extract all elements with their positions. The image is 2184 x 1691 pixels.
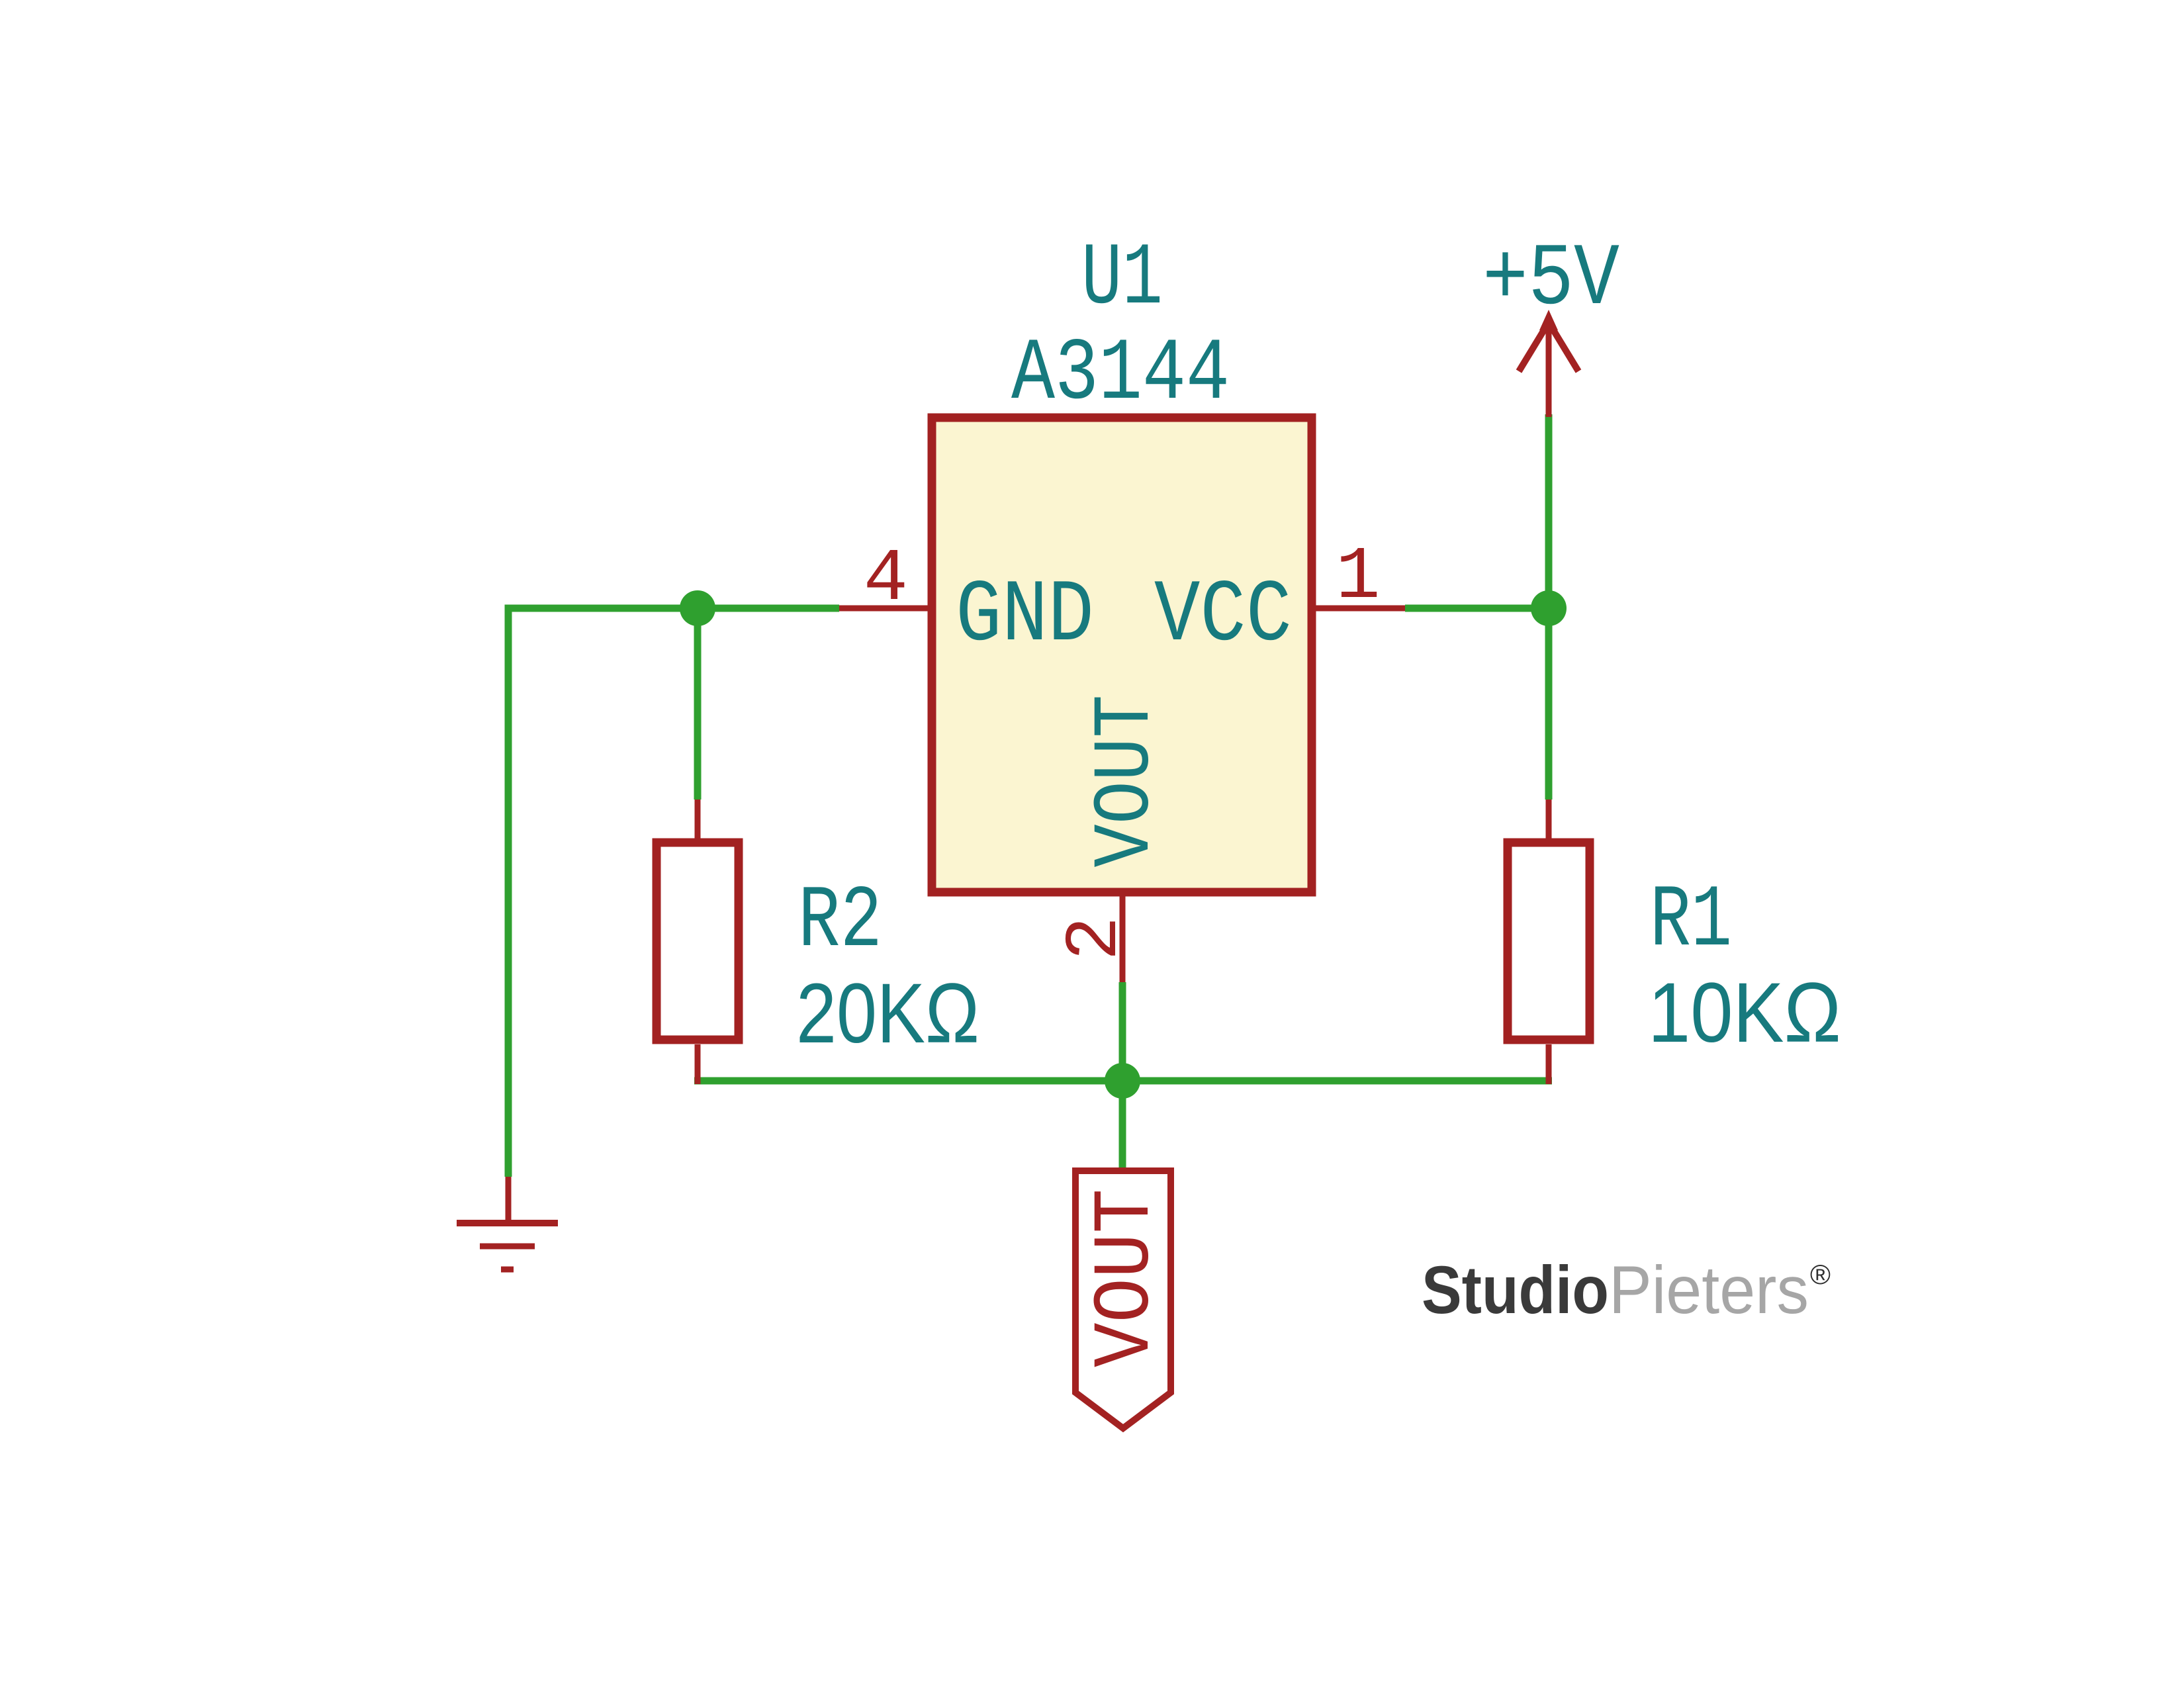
svg-text:2: 2 [1054,916,1138,960]
svg-text:Pieters: Pieters [1609,1252,1809,1328]
svg-text:VCC: VCC [1154,566,1292,666]
svg-text:+5V: +5V [1482,230,1619,330]
svg-text:20KΩ: 20KΩ [796,966,979,1061]
svg-text:Studio: Studio [1422,1252,1609,1328]
svg-text:VOUT: VOUT [1080,1189,1172,1367]
svg-text:R1: R1 [1650,871,1732,971]
svg-text:R2: R2 [798,872,882,972]
svg-text:1: 1 [1336,535,1380,619]
svg-text:10KΩ: 10KΩ [1648,966,1841,1060]
svg-text:®: ® [1810,1259,1831,1290]
svg-text:U1: U1 [1081,229,1163,329]
svg-text:4: 4 [864,537,908,621]
svg-text:A3144: A3144 [1011,324,1230,424]
svg-text:GND: GND [956,566,1094,666]
svg-text:VOUT: VOUT [1080,695,1172,868]
